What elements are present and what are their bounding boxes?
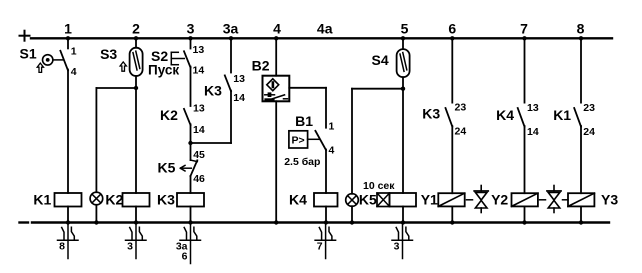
valve symbol 2 — [547, 186, 561, 213]
svg-text:4: 4 — [329, 145, 335, 157]
svg-text:K2: K2 — [160, 107, 178, 123]
switch S2 start pushbutton contact — [171, 51, 190, 67]
svg-text:K3: K3 — [422, 106, 440, 122]
svg-text:2: 2 — [132, 21, 140, 37]
svg-text:14: 14 — [527, 126, 539, 138]
contact K5 normally-closed off-delay — [180, 160, 197, 176]
node junction dot lamp branch rung 5 — [401, 87, 405, 91]
node contact cross-reference marker K3 — [180, 224, 201, 264]
node junction dot rung 6 bottom — [450, 220, 454, 224]
solenoid coil Y3 — [568, 193, 594, 206]
wire lamp H2 to - rail — [351, 206, 353, 222]
node junction dot rung 1 bottom — [66, 220, 70, 224]
wire rung 6 K3 contact to Y1 coil — [451, 126, 453, 193]
node junction dot rung 4 top — [274, 36, 278, 40]
svg-text:7: 7 — [520, 21, 528, 37]
switch S3 detent switch — [130, 48, 143, 76]
wire rung 3 K5 contact to K3 coil — [190, 176, 192, 193]
svg-text:2.5 бар: 2.5 бар — [284, 156, 320, 168]
svg-text:1: 1 — [64, 21, 72, 37]
svg-text:3: 3 — [187, 21, 195, 37]
wire bottom return rail (-) — [32, 221, 609, 223]
svg-text:4a: 4a — [317, 21, 333, 37]
wire rung 2 from + rail to S3 — [135, 38, 137, 47]
svg-text:3: 3 — [394, 241, 400, 253]
wire rung 5 S4 down to K5 coil — [402, 77, 404, 193]
contact K4 normally-open rung 7 — [518, 108, 525, 127]
node junction dot rung 8 top — [579, 36, 583, 40]
node junction dot rung 4 bottom — [274, 220, 278, 224]
wire B2 output to rung 4a — [289, 87, 326, 89]
svg-text:P>: P> — [292, 135, 305, 147]
node junction dot rung 5 bottom — [401, 220, 405, 224]
relay coil K5 time relay — [390, 193, 417, 207]
svg-text:K1: K1 — [33, 192, 51, 208]
node junction dot rung 3a top — [229, 36, 233, 40]
svg-text:13: 13 — [233, 73, 245, 85]
relay coil K4 — [314, 193, 338, 207]
node junction dot rung 7 bottom — [522, 220, 526, 224]
wire rung 3a K3 contact down — [230, 91, 232, 143]
lamp H1 indicator light — [90, 192, 103, 205]
svg-text:7: 7 — [317, 241, 323, 253]
node contact cross-reference marker K1 — [58, 224, 79, 259]
svg-text:S3: S3 — [100, 46, 117, 62]
svg-text:23: 23 — [455, 102, 467, 114]
wire K1 coil to - rail — [67, 207, 69, 223]
relay coil K3 — [177, 193, 204, 207]
wire rung 4 from + rail to B2 — [275, 38, 277, 75]
svg-text:K4: K4 — [289, 192, 307, 208]
wire rung 5 from + rail to S4 — [402, 38, 404, 49]
solenoid coil Y2 — [512, 193, 538, 206]
svg-text:K5: K5 — [158, 160, 176, 176]
svg-text:K3: K3 — [204, 83, 222, 99]
wire K3 coil to - rail — [190, 207, 192, 223]
wire lamp branch horizontal rung 5 — [352, 88, 403, 90]
node junction dot lamp branch — [134, 86, 138, 90]
svg-text:4: 4 — [273, 21, 281, 37]
node junction dot rung 3 top — [188, 36, 192, 40]
svg-text:K4: K4 — [496, 107, 514, 123]
svg-text:K3: K3 — [157, 192, 175, 208]
svg-text:Y3: Y3 — [601, 192, 618, 208]
svg-text:4: 4 — [71, 66, 77, 78]
node S3 actuation arrow — [120, 62, 126, 71]
wire rung 3 K2 contact to K5 contact — [190, 124, 192, 160]
svg-text:14: 14 — [193, 65, 205, 77]
svg-text:Y1: Y1 — [421, 192, 438, 208]
svg-text:K1: K1 — [553, 107, 571, 123]
svg-text:Пуск: Пуск — [148, 63, 179, 78]
wire K2 coil to - rail — [135, 207, 137, 223]
node junction dot rung 4a bottom — [324, 220, 328, 224]
svg-text:1: 1 — [71, 46, 77, 58]
contact K3 normally-open self-holding — [225, 75, 231, 91]
node junction dot lamp H2 bottom — [350, 220, 354, 224]
wire lamp branch horizontal — [96, 87, 136, 89]
wire Y3 coil to - rail — [580, 206, 582, 222]
solenoid coil Y1 — [438, 193, 464, 206]
svg-text:K2: K2 — [105, 192, 123, 208]
valve symbol 1 — [474, 186, 488, 213]
node mechanical link Y1 to valve — [467, 199, 473, 201]
node contact cross-reference marker K5 — [392, 224, 413, 259]
wire rung 7 from + rail to K4 contact — [524, 38, 526, 102]
contact K1 normally-open rung 8 — [574, 108, 581, 127]
switch S1 normally-open pushbutton contact — [43, 51, 69, 71]
node junction dot rung 5 top — [401, 36, 405, 40]
svg-text:S1: S1 — [20, 46, 37, 62]
contact K3 normally-open rung 6 — [446, 108, 453, 127]
node mechanical link valve to Y3 — [563, 199, 569, 201]
svg-text:8: 8 — [59, 241, 65, 253]
svg-text:45: 45 — [193, 149, 205, 161]
relay coil K5 time relay flag — [377, 193, 390, 207]
svg-text:23: 23 — [583, 102, 595, 114]
svg-text:3: 3 — [127, 241, 133, 253]
wire rung 3a join to rung 3 — [191, 142, 232, 144]
svg-text:10 сек: 10 сек — [363, 180, 395, 192]
svg-text:8: 8 — [577, 21, 585, 37]
node junction dot rung 6 top — [450, 36, 454, 40]
lamp H2 indicator light — [346, 194, 359, 207]
wire lamp branch vertical rung 5 — [351, 89, 353, 194]
wire rung 6 from + rail to K3 contact — [451, 38, 453, 102]
svg-text:24: 24 — [455, 126, 467, 138]
node junction dot rung 8 bottom — [579, 220, 583, 224]
wire rung 1 from + rail to S1 — [67, 38, 69, 48]
node junction dot rung 3 bottom — [188, 220, 192, 224]
node junction dot lamp bottom — [94, 220, 98, 224]
svg-text:24: 24 — [583, 126, 595, 138]
svg-text:13: 13 — [527, 102, 539, 114]
svg-text:B2: B2 — [252, 58, 270, 74]
wire rung 3 S2 to K2 contact — [190, 67, 192, 106]
wire rung 7 K4 contact to Y2 coil — [524, 126, 526, 193]
wire rung 4a B1 to K4 coil — [325, 150, 327, 194]
wire K4 coil to - rail — [325, 207, 327, 223]
node minus terminal (-) — [20, 221, 29, 223]
wire rung 2 S3 to K2 coil — [135, 76, 137, 193]
svg-text:1: 1 — [329, 121, 335, 133]
wire rung 8 K1 contact to Y3 coil — [580, 126, 582, 193]
contact K2 normally-open — [184, 109, 191, 125]
wire rung 8 from + rail to K1 contact — [580, 38, 582, 102]
svg-text:K5: K5 — [359, 192, 377, 208]
svg-text:3a: 3a — [223, 21, 239, 37]
svg-text:13: 13 — [193, 103, 205, 115]
relay coil K2 — [123, 193, 150, 207]
svg-text:S4: S4 — [372, 52, 389, 68]
wire rung 3a from + rail to K3 contact — [230, 38, 232, 72]
svg-text:13: 13 — [193, 44, 205, 56]
node junction dot rung 3 / 3a — [188, 141, 192, 145]
node contact cross-reference marker K4 — [315, 224, 336, 259]
node contact cross-reference marker K2 — [126, 224, 147, 259]
node junction dot rung 7 top — [522, 36, 526, 40]
wire rung 4 B2 to - rail — [275, 101, 277, 222]
pressure switch B1 contact — [289, 131, 326, 150]
node junction dot rung 1 top — [66, 36, 70, 40]
node mechanical link Y2 to valve — [540, 199, 546, 201]
switch S4 detent switch — [397, 49, 410, 77]
wire rung 1 S1 to K1 coil — [67, 70, 69, 194]
wire rung 4a down to B1 contact — [325, 88, 327, 128]
node plus terminal (+) — [20, 31, 30, 41]
wire Y1 coil to - rail — [451, 206, 453, 222]
wire lamp to - rail — [95, 205, 97, 223]
wire top supply rail (+) — [31, 37, 612, 39]
svg-text:B1: B1 — [295, 113, 313, 129]
svg-text:5: 5 — [401, 21, 409, 37]
svg-text:46: 46 — [193, 173, 205, 185]
svg-text:Y2: Y2 — [491, 192, 508, 208]
node S1 actuation arrow — [37, 63, 43, 72]
wire rung 3 from + rail to S2 — [190, 38, 192, 48]
wire lamp branch vertical — [95, 88, 97, 192]
svg-text:14: 14 — [233, 92, 245, 104]
svg-text:6: 6 — [182, 251, 188, 263]
wire K5 coil to - rail — [402, 207, 404, 223]
relay coil K1 — [55, 193, 82, 207]
svg-text:6: 6 — [448, 21, 456, 37]
svg-text:14: 14 — [193, 124, 205, 136]
node junction dot rung 2 top — [134, 36, 138, 40]
wire Y2 coil to - rail — [524, 206, 526, 222]
sensor B2 proximity switch — [263, 76, 290, 102]
node junction dot rung 2 bottom — [134, 220, 138, 224]
